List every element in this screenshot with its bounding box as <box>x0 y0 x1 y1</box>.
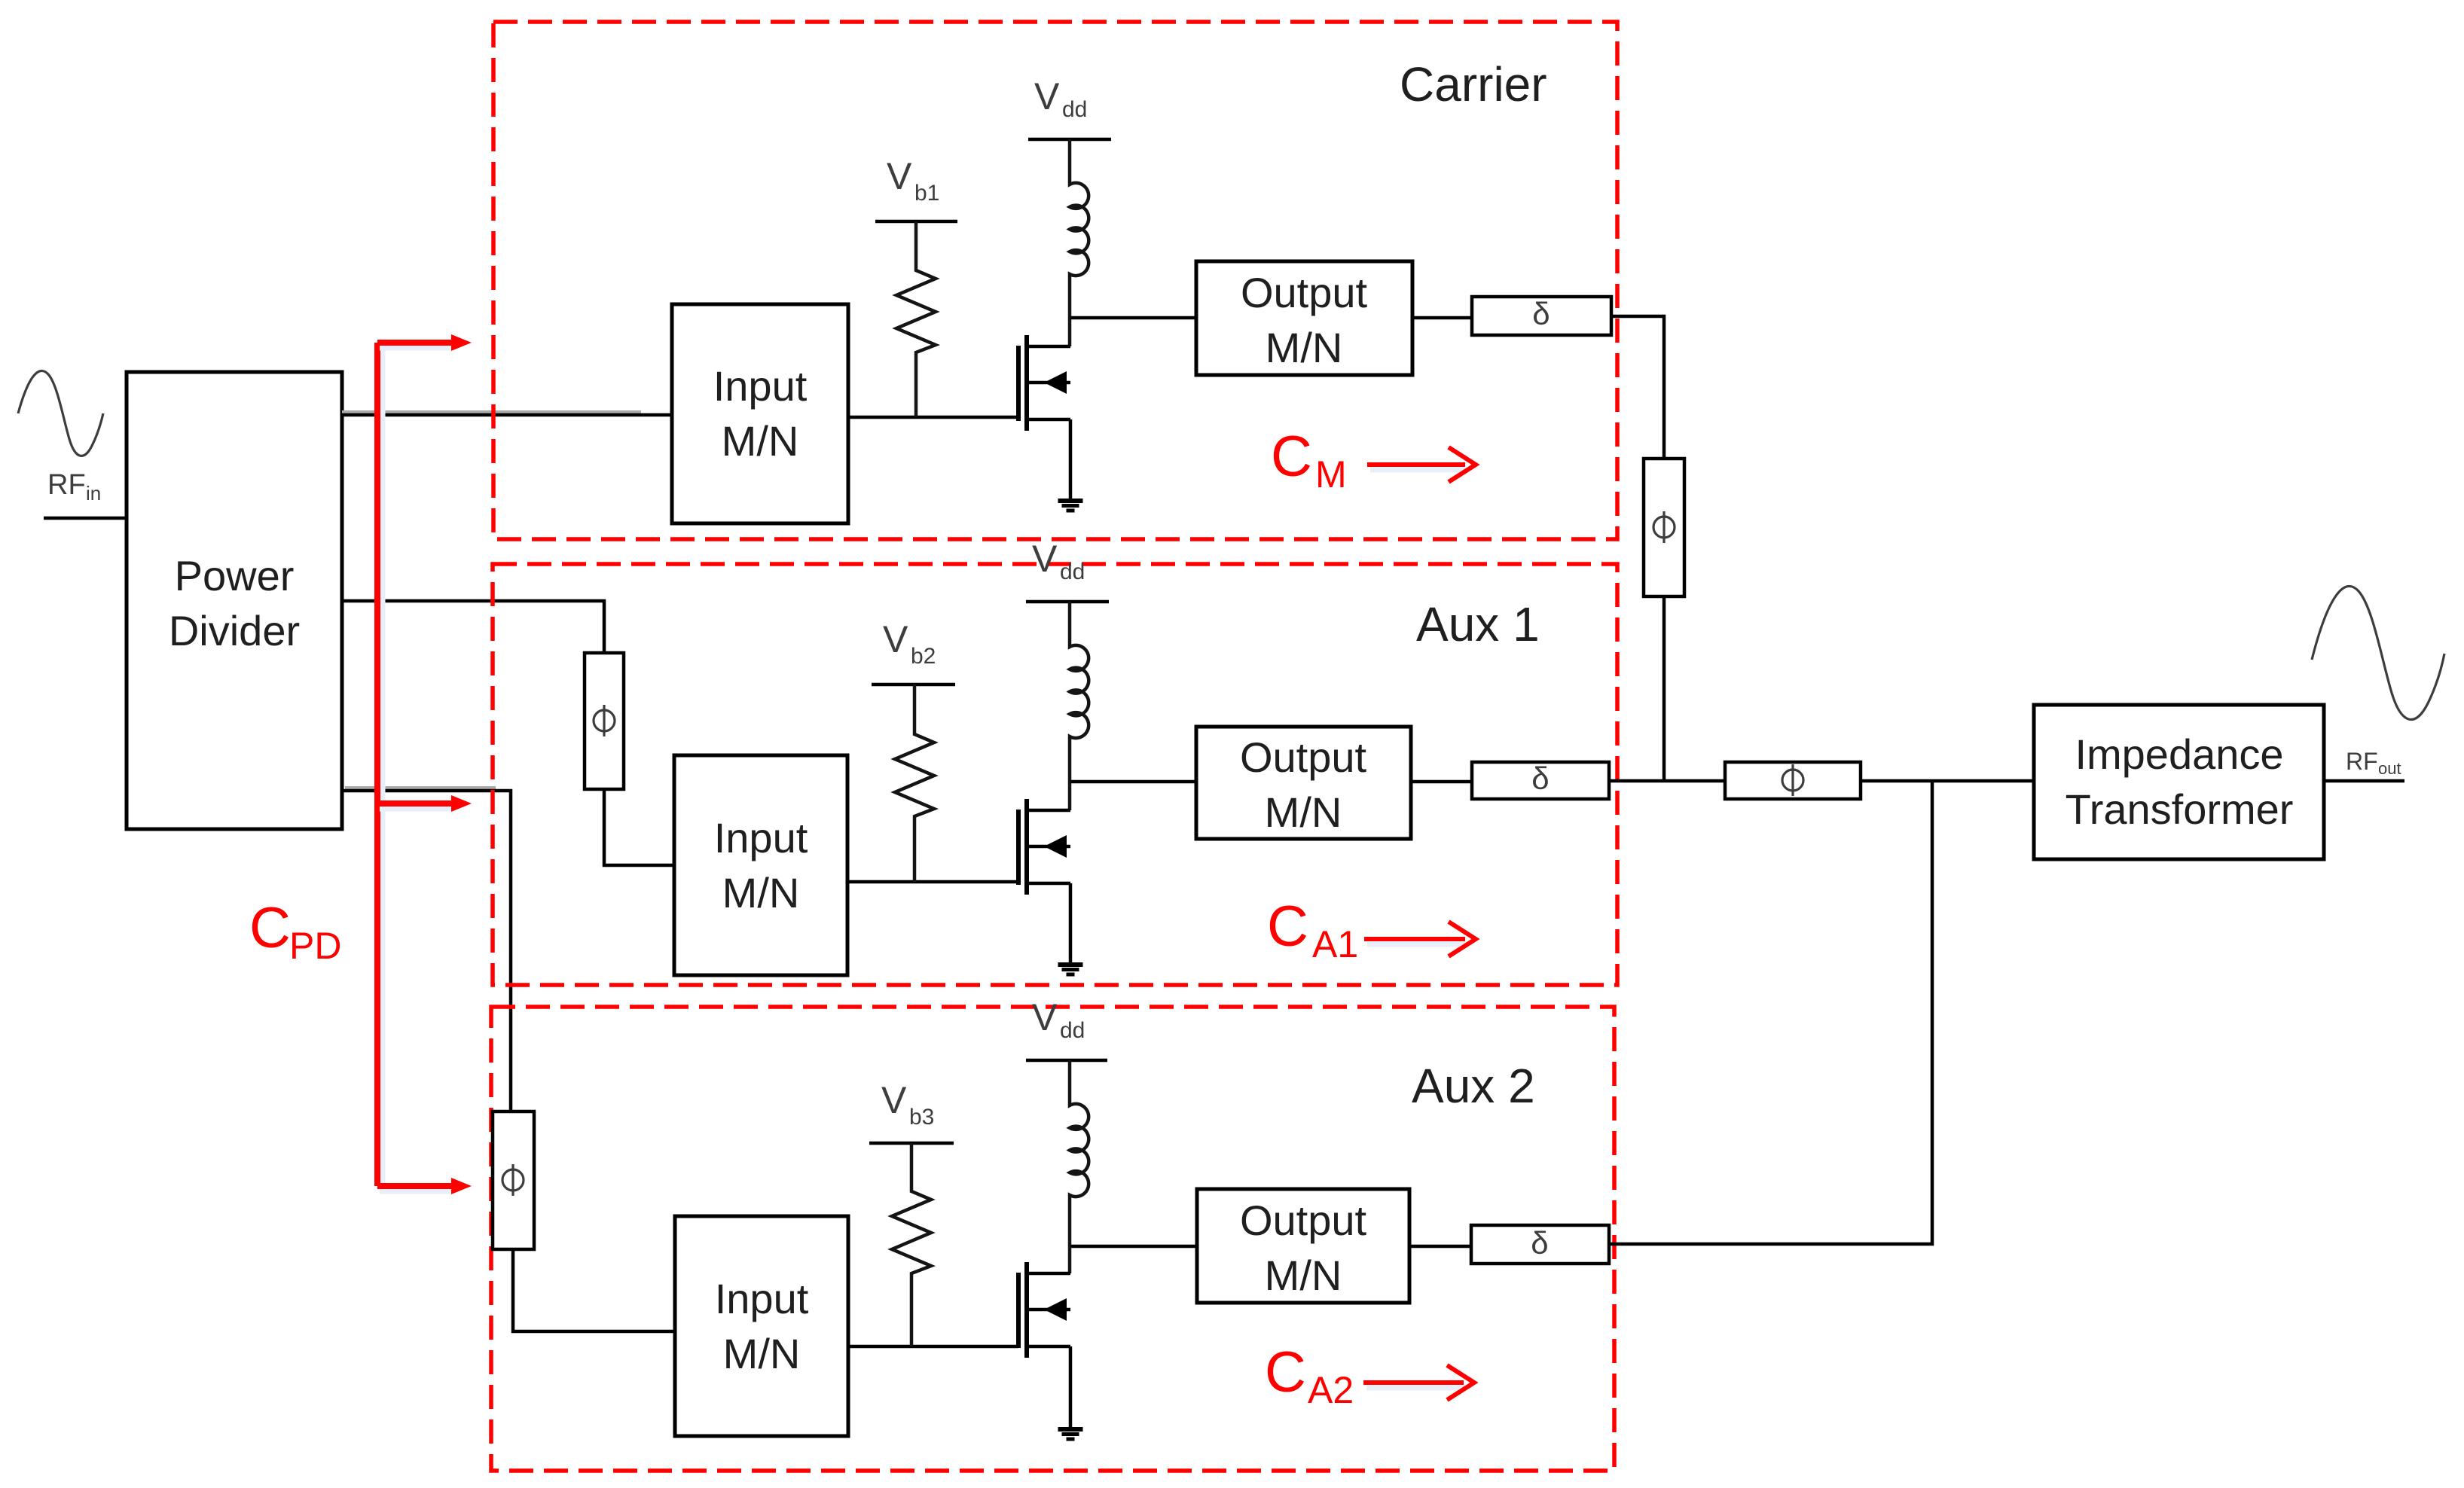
MOSFET Q1 (carrier) <box>1016 346 1021 421</box>
svg-text:M/N: M/N <box>1265 788 1342 836</box>
svg-text:Aux 2: Aux 2 <box>1412 1059 1535 1113</box>
CPD arrow top <box>380 346 450 351</box>
CPD red distribution line <box>380 348 386 1188</box>
svg-text:dd: dd <box>1060 1018 1085 1043</box>
svg-text:V: V <box>887 155 912 197</box>
svg-text:δ: δ <box>1532 296 1550 331</box>
input M/N box (aux1) <box>674 755 847 975</box>
wire drain node (aux1) <box>1070 780 1196 784</box>
svg-text:dd: dd <box>1060 560 1085 584</box>
aux1 dashed box <box>493 564 1617 985</box>
wire output to delta (aux1) <box>1411 780 1472 784</box>
wire PD output 3 to aux2 phi <box>345 786 496 789</box>
carrier dashed box <box>493 22 1617 539</box>
phi symbol input (aux2) <box>502 1164 524 1196</box>
svg-text:M/N: M/N <box>722 417 799 465</box>
MOSFET Q2 (aux1) <box>1016 810 1021 885</box>
ground (aux1) <box>1058 962 1083 967</box>
wire source to ground (aux1) <box>1069 883 1073 963</box>
wire aux2 riser to output bus <box>1609 781 1932 1244</box>
svg-text:Input: Input <box>714 814 808 861</box>
wire gate (aux1) <box>847 880 1018 884</box>
wire gate (carrier) <box>848 416 1018 419</box>
CPD arrow bottom <box>380 1189 450 1194</box>
wire drain node (aux2) <box>1070 1245 1197 1249</box>
aux2 dashed box <box>491 1007 1614 1471</box>
svg-text:A2: A2 <box>1308 1369 1354 1411</box>
svg-text:b2: b2 <box>911 644 936 669</box>
svg-text:M/N: M/N <box>1266 324 1343 371</box>
wire gate (aux2) <box>848 1345 1018 1349</box>
svg-text:Input: Input <box>713 362 808 410</box>
svg-text:Impedance: Impedance <box>2075 730 2283 778</box>
ground (aux2) <box>1058 1427 1083 1432</box>
arrow CA1 <box>1367 942 1467 947</box>
phi box vertical (carrier path) <box>1644 459 1684 596</box>
arrow CA2 <box>1366 1386 1465 1391</box>
wire output to delta (aux2) <box>1409 1245 1471 1249</box>
svg-text:A1: A1 <box>1312 923 1358 965</box>
delta line box (aux2) <box>1471 1225 1609 1264</box>
phi symbol (carrier path) <box>1653 511 1675 543</box>
svg-text:M: M <box>1315 453 1347 495</box>
wire phi to impedance transformer <box>1861 779 2034 783</box>
wire phi to output bus <box>1663 596 1666 782</box>
wire output to delta (carrier) <box>1412 316 1472 320</box>
phi symbol (output bus) <box>1782 764 1803 796</box>
output M/N box (carrier) <box>1196 261 1412 375</box>
ground (carrier) <box>1058 499 1083 503</box>
wire source to ground (carrier) <box>1069 419 1073 499</box>
svg-text:C: C <box>1271 425 1312 489</box>
svg-text:Power: Power <box>175 552 295 599</box>
svg-text:C: C <box>1267 895 1308 959</box>
svg-text:RF: RF <box>2346 748 2378 775</box>
svg-text:Input: Input <box>715 1275 809 1322</box>
phi box input (aux1) <box>585 653 624 789</box>
svg-text:RF: RF <box>47 469 86 501</box>
wire RFout <box>2324 779 2404 783</box>
svg-text:M/N: M/N <box>722 869 800 916</box>
resistor R3 bias (aux2) with Vb3 bar <box>869 1142 954 1145</box>
MOSFET Q3 (aux2) <box>1016 1273 1021 1348</box>
phi box horizontal (output bus) <box>1725 762 1861 799</box>
phi box input (aux2) <box>493 1111 534 1249</box>
wire drain node (carrier) <box>1070 316 1196 320</box>
svg-text:V: V <box>1032 538 1058 580</box>
wire delta to phi column (carrier) <box>1611 316 1664 459</box>
svg-text:b1: b1 <box>914 181 939 206</box>
svg-text:δ: δ <box>1531 1225 1548 1261</box>
svg-text:V: V <box>881 1079 907 1121</box>
inductor L3 RF choke (aux2) with Vdd bar <box>1026 1059 1107 1063</box>
resistor R2 bias (aux1) with Vb2 bar <box>872 683 955 687</box>
wire output bus aux1 delta to phi horizontal <box>1609 779 1727 783</box>
svg-text:PD: PD <box>289 925 341 967</box>
svg-text:dd: dd <box>1062 97 1087 122</box>
phi symbol input (aux1) <box>594 705 615 736</box>
svg-text:V: V <box>1034 75 1060 117</box>
wire RFin to power divider <box>44 517 128 520</box>
wire PD output 1 to carrier input <box>342 410 641 413</box>
arrow CM <box>1370 468 1467 473</box>
inductor L1 RF choke (carrier) with Vdd bar <box>1028 138 1111 142</box>
svg-text:C: C <box>1265 1340 1306 1404</box>
input M/N box (carrier) <box>672 304 848 523</box>
svg-text:Divider: Divider <box>169 607 300 654</box>
wire phi to input box (aux1) <box>604 789 674 865</box>
svg-text:V: V <box>883 618 908 660</box>
delta line box (aux1) <box>1472 762 1609 799</box>
svg-text:Transformer: Transformer <box>2066 785 2294 833</box>
svg-text:V: V <box>1032 996 1058 1038</box>
svg-text:Output: Output <box>1241 269 1368 316</box>
wire phi to input box (aux2) <box>513 1249 675 1331</box>
output sine symbol <box>2312 586 2444 719</box>
svg-text:Output: Output <box>1240 733 1367 781</box>
resistor R1 bias (carrier) with Vb1 bar <box>875 220 957 224</box>
wire source to ground (aux2) <box>1069 1346 1073 1428</box>
svg-text:Aux 1: Aux 1 <box>1416 597 1540 651</box>
wire PD output 2 to aux1 phi <box>342 601 604 654</box>
svg-text:M/N: M/N <box>1265 1252 1342 1299</box>
CPD arrow middle <box>380 807 450 812</box>
svg-text:δ: δ <box>1531 761 1549 796</box>
svg-text:M/N: M/N <box>723 1330 801 1377</box>
svg-text:b3: b3 <box>909 1105 934 1130</box>
svg-text:in: in <box>86 482 101 505</box>
delta line box (carrier) <box>1472 297 1611 335</box>
output M/N box (aux1) <box>1196 727 1411 839</box>
source sine symbol (RFin) <box>18 370 103 456</box>
inductor L2 RF choke (aux1) with Vdd bar <box>1026 600 1109 604</box>
svg-text:out: out <box>2378 759 2401 778</box>
impedance transformer box <box>2034 705 2324 859</box>
svg-text:Carrier: Carrier <box>1400 57 1547 111</box>
output M/N box (aux2) <box>1197 1189 1409 1303</box>
svg-text:C: C <box>249 896 291 960</box>
svg-text:Output: Output <box>1240 1197 1367 1244</box>
input M/N box (aux2) <box>675 1216 848 1436</box>
power divider box <box>127 372 342 829</box>
